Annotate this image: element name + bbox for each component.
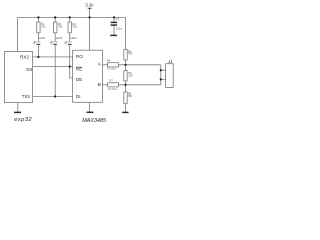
power flag 3.3v bar (88, 7, 92, 9)
node rail-cap (113, 16, 115, 18)
wire cap branch (113, 17, 115, 34)
svg-text:100n: 100n (116, 27, 122, 31)
wire RX2-RO net (33, 56, 73, 58)
wire RE-DE tie (70, 67, 73, 78)
resistor R3 (68, 22, 71, 33)
svg-text:LED1: LED1 (39, 36, 46, 40)
resistor R2 (54, 22, 57, 33)
resistor R1 (37, 22, 40, 33)
wire MAX3485 gnd stub (89, 102, 91, 111)
svg-text:RO: RO (76, 54, 83, 59)
node rail-vcc (89, 16, 91, 18)
wire TX2-DI net (33, 96, 73, 98)
wire rail right drop to R5 (125, 17, 127, 49)
svg-text:A: A (98, 61, 102, 66)
wire J1 pin stubs (161, 70, 166, 79)
svg-text:330: 330 (72, 24, 77, 28)
svg-text:TX2: TX2 (22, 94, 31, 99)
svg-text:LED3: LED3 (70, 36, 77, 40)
svg-text:R4: R4 (107, 58, 111, 62)
wire power flag stub (89, 8, 91, 17)
svg-text:RX2: RX2 (20, 54, 29, 59)
node branch3-D4 (69, 66, 71, 68)
svg-text:LED2: LED2 (56, 36, 63, 40)
ground (cap) (110, 34, 117, 36)
resistor R6 termination (124, 71, 127, 81)
svg-text:3.3v: 3.3v (85, 3, 94, 8)
wire branch1 LED string (37, 17, 39, 57)
connector J1 box (166, 64, 174, 88)
svg-text:esp32: esp32 (14, 117, 32, 123)
resistor R4 (A line) (108, 63, 119, 67)
wire branch2 LED string (54, 17, 56, 96)
ground (R8) (122, 111, 128, 113)
resistor R7 (B line) (108, 83, 119, 87)
node rail-branch2 (54, 16, 56, 18)
svg-text:DE: DE (76, 77, 82, 82)
wire branch3 LED string (69, 17, 71, 66)
resistor R5 pull-up (124, 50, 127, 61)
svg-text:330: 330 (58, 24, 63, 28)
svg-text:MAX3485: MAX3485 (82, 118, 107, 124)
svg-text:330: 330 (41, 24, 46, 28)
node B-chain (124, 84, 126, 86)
LED3 (65, 41, 72, 44)
svg-text:C2: C2 (116, 17, 120, 21)
svg-text:750: 750 (128, 94, 133, 98)
ground (MAX3485) (87, 111, 94, 113)
node A-chain (124, 64, 126, 66)
wire J1 riser (160, 65, 162, 85)
esp32 U2 box (4, 52, 32, 103)
svg-text:750: 750 (128, 52, 133, 56)
node rail-branch1 (37, 16, 39, 18)
wire A net (102, 64, 161, 66)
node J1 pin2 (160, 78, 162, 80)
svg-text:D4: D4 (26, 67, 32, 72)
svg-text:10 ohm: 10 ohm (108, 87, 118, 91)
LED2 (50, 41, 57, 44)
svg-text:R7: R7 (109, 79, 113, 83)
wire rail left drop to esp32 3V3 (17, 17, 19, 51)
wire chain verticals (125, 60, 127, 112)
ground (esp32) (14, 111, 21, 113)
svg-text:120: 120 (128, 74, 133, 78)
wire 3.3v rail (18, 16, 126, 18)
svg-text:DI: DI (76, 94, 81, 99)
svg-text:B: B (98, 82, 101, 87)
wire D4-RE net (33, 66, 73, 68)
resistor R8 pull-down (124, 92, 127, 104)
node rail-branch3 (69, 16, 71, 18)
node J1 pin1 (160, 69, 162, 71)
svg-text:10 ohm: 10 ohm (107, 66, 117, 70)
MAX3485 U1 box (73, 50, 103, 102)
junction dots (37, 16, 162, 97)
svg-text:J1: J1 (167, 59, 172, 64)
wire esp32 gnd stub (17, 103, 19, 112)
wire MAX3485 VCC stub (89, 17, 91, 50)
node branch1-RX2 (37, 56, 39, 58)
node branch2-TX2 (54, 95, 56, 97)
LED1 (34, 41, 41, 44)
capacitor C1 (111, 22, 117, 25)
wire B net (102, 84, 161, 86)
